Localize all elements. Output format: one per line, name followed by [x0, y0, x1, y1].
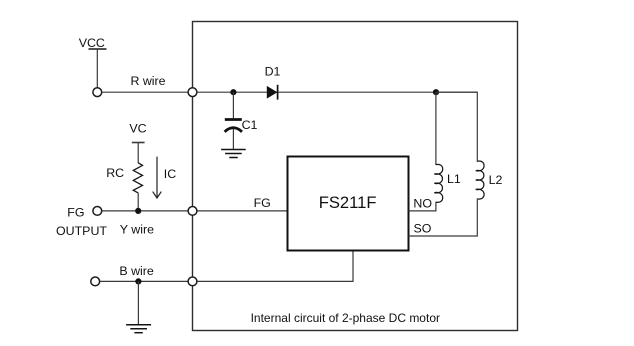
- resistor RC (zigzag): [133, 163, 142, 193]
- node: B wire entry on motor boundary (open circle): [188, 277, 197, 286]
- node: R wire entry on motor boundary (open circle): [188, 88, 197, 97]
- wire: L1 to NO pin: [409, 202, 436, 211]
- svg-text:OUTPUT: OUTPUT: [56, 224, 107, 238]
- svg-text:L1: L1: [447, 172, 461, 186]
- node: Y wire entry on motor boundary (open circle): [188, 207, 197, 216]
- op-amp / driver IC U1: FS211F block: [288, 157, 409, 251]
- ground (below B wire): [126, 325, 151, 333]
- junction: B wire / ground: [135, 278, 141, 284]
- svg-text:L2: L2: [489, 173, 503, 187]
- junction: RC / Y wire: [135, 208, 141, 214]
- VCC power symbol: [89, 49, 107, 89]
- svg-text:FG: FG: [67, 205, 84, 219]
- node: B wire terminal (open circle): [91, 277, 100, 286]
- wire: Y wire (FG output line into FS211F): [97, 210, 288, 212]
- svg-text:SO: SO: [413, 221, 431, 235]
- wire: B wire ground lead: [137, 281, 139, 324]
- svg-text:R wire: R wire: [130, 74, 165, 88]
- svg-text:Y wire: Y wire: [120, 223, 154, 237]
- svg-text:FS211F: FS211F: [319, 193, 377, 212]
- svg-text:FG: FG: [254, 196, 271, 210]
- wire: RC bottom lead to Y wire: [137, 193, 139, 211]
- current arrow IC: [153, 157, 162, 198]
- svg-text:RC: RC: [106, 166, 124, 180]
- wire: FS211F ground pin drop: [352, 251, 354, 283]
- svg-text:Internal circuit of 2-phase DC: Internal circuit of 2-phase DC motor: [251, 311, 440, 325]
- svg-text:C1: C1: [242, 118, 258, 132]
- svg-text:VCC: VCC: [79, 36, 105, 50]
- wire: supply over and down to L2: [436, 92, 477, 162]
- svg-text:IC: IC: [164, 167, 176, 181]
- inductor L2: [476, 161, 484, 199]
- junction: C1 tap on R line: [230, 89, 236, 95]
- ground (below C1): [221, 150, 246, 158]
- svg-text:VC: VC: [129, 122, 146, 136]
- wire: supply drop to L1: [435, 92, 437, 165]
- node: VCC input terminal (open circle): [93, 88, 102, 97]
- wire: R wire (VCC terminal to diode and motor): [97, 91, 477, 93]
- capacitor C1 (polarized): [225, 92, 242, 149]
- svg-text:D1: D1: [265, 64, 281, 78]
- wire: B wire (ground return): [95, 280, 353, 282]
- junction: L1/L2 supply tap: [433, 89, 439, 95]
- motor internal-circuit boundary box: [193, 22, 518, 331]
- diode D1: [267, 85, 278, 100]
- inductor L1: [434, 164, 442, 202]
- VC supply bar symbol: [132, 143, 145, 164]
- svg-text:NO: NO: [413, 196, 432, 210]
- svg-text:B wire: B wire: [119, 264, 154, 278]
- wire: L2 to SO pin: [409, 199, 478, 237]
- node: FG output terminal (open circle): [93, 207, 102, 216]
